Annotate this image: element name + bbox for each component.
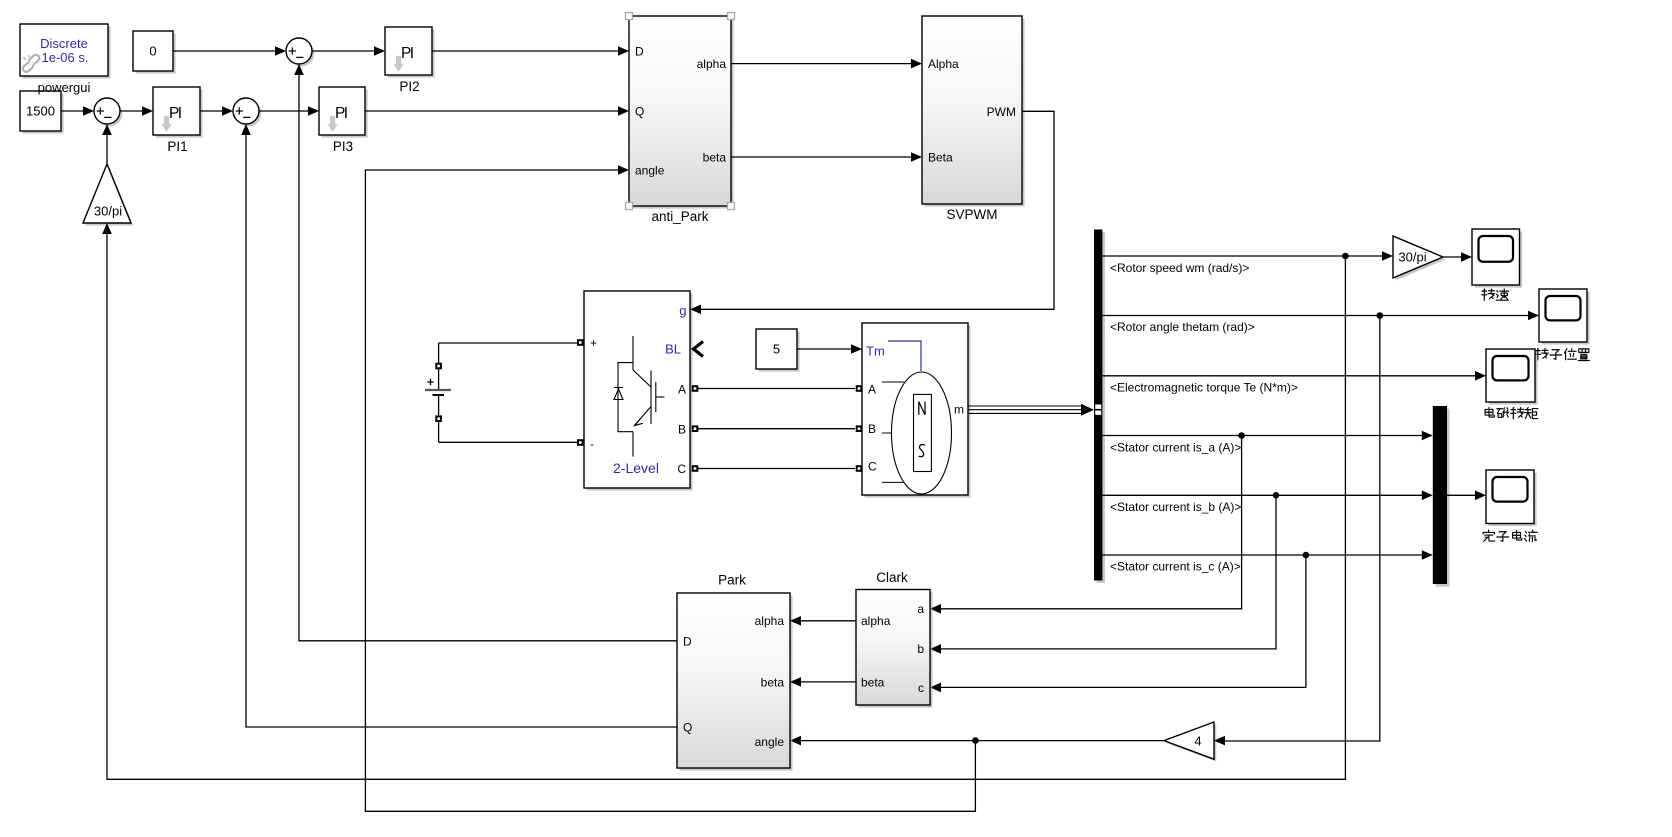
svg-text:<Stator current is_a (A)>: <Stator current is_a (A)> xyxy=(1110,441,1241,455)
svg-text:30/pi: 30/pi xyxy=(94,204,122,219)
PMSM magnet S glyph xyxy=(919,445,925,457)
svg-text:-: - xyxy=(590,437,594,451)
wire thetam to gain G3 xyxy=(1216,316,1380,742)
wire is_a to Clark a xyxy=(932,436,1242,609)
wire 5 to PMSM Tm xyxy=(797,348,860,350)
label 转速 xyxy=(1482,289,1509,300)
block Clark xyxy=(856,590,933,708)
svg-text:Clark: Clark xyxy=(876,570,908,585)
svg-text:beta: beta xyxy=(861,675,885,689)
wire bus Te to scope torque xyxy=(1102,375,1484,377)
sum junction S3 xyxy=(286,38,314,67)
svg-text:<Stator current is_c (A)>: <Stator current is_c (A)> xyxy=(1110,560,1241,574)
wire bus is_b to mux xyxy=(1102,494,1430,496)
wire 0 to S3 xyxy=(173,50,284,52)
block Park xyxy=(677,593,793,771)
junction is_c xyxy=(1303,552,1310,559)
block PI1 gray arrow icon xyxy=(161,116,171,132)
svg-text:g: g xyxy=(679,303,686,318)
junction is_a xyxy=(1238,432,1245,439)
wire bus is_c to mux xyxy=(1102,554,1430,556)
2-Level IGBT diode icon xyxy=(614,336,665,457)
svg-text:anti_Park: anti_Park xyxy=(651,209,708,224)
block SVPWM xyxy=(922,16,1025,207)
svg-text:beta: beta xyxy=(761,675,785,689)
svg-text:a: a xyxy=(917,602,924,616)
constant 0 xyxy=(133,31,176,74)
svg-text:BL: BL xyxy=(665,342,681,357)
block PI2 xyxy=(385,27,435,78)
wire angle feedback to anti_Park angle xyxy=(365,170,975,811)
svg-text:D: D xyxy=(683,634,692,648)
svg-text:5: 5 xyxy=(773,342,780,357)
scope zhuansu (speed) xyxy=(1472,229,1522,288)
svg-text:m: m xyxy=(954,403,964,417)
sum junction S2 xyxy=(233,98,261,127)
junction thetam feedback xyxy=(1377,312,1384,319)
wire battery- to 2-Level - xyxy=(439,441,578,443)
svg-text:4: 4 xyxy=(1194,734,1201,749)
svg-text:A: A xyxy=(868,382,876,396)
wire is_b to Clark b xyxy=(932,495,1276,649)
label 定子电流 xyxy=(1483,530,1537,542)
label 转子位置 xyxy=(1535,349,1589,361)
gain G3 value 4 left xyxy=(1164,722,1216,762)
PMSM stator stubs xyxy=(882,382,904,482)
svg-text:angle: angle xyxy=(635,164,665,178)
block PI3 gray arrow icon xyxy=(327,116,337,132)
wire Clark beta to Park beta xyxy=(792,681,856,683)
svg-text:alpha: alpha xyxy=(755,614,785,628)
svg-text:B: B xyxy=(868,422,876,436)
svg-text:<Rotor angle thetam (rad)>: <Rotor angle thetam (rad)> xyxy=(1110,320,1255,334)
wire Park D feedback to S3 xyxy=(299,66,677,641)
scope rotor position xyxy=(1539,289,1590,345)
wire PI1 to S2 xyxy=(200,110,231,112)
block powergui xyxy=(20,24,111,79)
wire bus wm to gain G2 xyxy=(1102,255,1391,257)
svg-text:2-Level: 2-Level xyxy=(613,460,659,476)
wire S1 to PI1 xyxy=(120,110,151,112)
svg-text:c: c xyxy=(918,681,924,695)
wire 1500 to S1 xyxy=(61,110,92,112)
svg-text:Q: Q xyxy=(683,721,692,735)
wire G1 to S1 ... vertical xyxy=(106,126,108,164)
wire G3 to Park angle xyxy=(792,740,1164,742)
wire battery+ to 2-Level + xyxy=(439,342,578,344)
bus selector input indicator xyxy=(1095,405,1101,409)
battery + sign xyxy=(427,379,433,385)
svg-text:<Stator current is_b (A)>: <Stator current is_b (A)> xyxy=(1110,500,1241,514)
bus selector bar xyxy=(1094,230,1105,584)
svg-text:Alpha: Alpha xyxy=(928,57,959,71)
2-Level electrical port squares xyxy=(577,339,584,346)
svg-text:PI: PI xyxy=(335,105,348,122)
svg-text:1e-06 s.: 1e-06 s. xyxy=(42,50,89,65)
block PI1 xyxy=(153,87,203,138)
junction angle feedback xyxy=(972,737,979,744)
PMSM electrical port squares xyxy=(856,385,863,392)
bus wire PMSM m to bus selector (triple line) xyxy=(968,406,1082,413)
wire wm feedback to gain G1 xyxy=(107,225,1345,779)
wire PI2 to anti_Park D xyxy=(432,50,627,52)
wire Clark alpha to Park alpha xyxy=(792,620,856,622)
block PI3 xyxy=(319,87,368,138)
wire 2-Level B to PMSM B xyxy=(698,428,856,430)
svg-text:alpha: alpha xyxy=(697,57,727,71)
PMSM Tm blue line xyxy=(888,341,921,371)
block anti_Park xyxy=(629,16,734,209)
wire is_c to Clark c xyxy=(932,555,1306,687)
scope torque xyxy=(1486,349,1538,405)
2-Level BL unconnected chevron xyxy=(694,342,704,357)
battery long plate xyxy=(425,389,451,391)
gain G2 30/pi right xyxy=(1393,236,1445,281)
wire anti_Park beta to SVPWM Beta xyxy=(731,156,920,158)
junction wm feedback xyxy=(1342,253,1349,260)
svg-text:PI: PI xyxy=(169,105,182,122)
mux bar xyxy=(1433,406,1450,587)
wire mux to scope stator current xyxy=(1447,494,1484,496)
svg-text:A: A xyxy=(678,382,686,396)
svg-text:30/pi: 30/pi xyxy=(1398,250,1426,265)
PMSM magnet rect xyxy=(914,394,932,471)
battery terminal port squares xyxy=(435,363,442,370)
svg-text:B: B xyxy=(678,422,686,436)
svg-text:C: C xyxy=(868,460,877,474)
wire SVPWM PWM to 2-Level g xyxy=(692,111,1054,309)
wire 2-Level C to PMSM C xyxy=(698,468,856,470)
wire S3 to PI2 xyxy=(312,50,383,52)
wire Park Q feedback to S2 xyxy=(246,126,677,727)
svg-text:Beta: Beta xyxy=(928,151,953,165)
svg-text:alpha: alpha xyxy=(861,614,891,628)
svg-text:PI2: PI2 xyxy=(399,79,419,94)
svg-text:SVPWM: SVPWM xyxy=(946,207,997,222)
battery short plate xyxy=(433,394,445,396)
svg-text:PI3: PI3 xyxy=(333,139,353,154)
anti_Park selection handles xyxy=(626,13,633,20)
block 2-Level converter xyxy=(584,291,693,491)
svg-text:1500: 1500 xyxy=(26,104,55,119)
svg-text:beta: beta xyxy=(703,151,727,165)
svg-text:PI1: PI1 xyxy=(167,139,187,154)
svg-text:angle: angle xyxy=(755,735,785,749)
wire anti_Park alpha to SVPWM Alpha xyxy=(731,63,920,65)
svg-text:b: b xyxy=(917,642,924,656)
DC source battery wires xyxy=(438,343,440,390)
svg-text:0: 0 xyxy=(149,44,156,59)
wire 2-Level A to PMSM A xyxy=(698,388,856,390)
svg-text:Q: Q xyxy=(635,105,644,119)
block PMSM motor xyxy=(862,323,971,498)
svg-text:Tm: Tm xyxy=(866,344,885,359)
svg-text:<Rotor speed wm (rad/s)>: <Rotor speed wm (rad/s)> xyxy=(1110,261,1249,275)
svg-text:D: D xyxy=(635,45,644,59)
block PI2 gray arrow icon xyxy=(393,56,403,72)
PMSM rotor ellipse xyxy=(892,372,952,494)
svg-text:Discrete: Discrete xyxy=(40,36,88,51)
svg-text:powergui: powergui xyxy=(38,80,91,95)
wire bus is_a to mux xyxy=(1102,435,1430,437)
wire bus thetam to scope rotor position xyxy=(1102,315,1537,317)
junction is_b xyxy=(1273,492,1280,499)
svg-text:Park: Park xyxy=(718,573,746,588)
wire G2 to scope speed xyxy=(1443,256,1470,258)
constant 5 xyxy=(756,329,800,372)
svg-text:PWM: PWM xyxy=(987,105,1016,119)
wire PI3 to anti_Park Q xyxy=(365,110,627,112)
gain G1 30/pi up xyxy=(83,164,133,226)
scope stator current xyxy=(1486,470,1537,526)
label 电磁转矩 xyxy=(1485,407,1538,418)
svg-text:<Electromagnetic torque Te (N*: <Electromagnetic torque Te (N*m)> xyxy=(1110,381,1298,395)
svg-text:+: + xyxy=(590,336,597,350)
sum junction S1 xyxy=(94,98,122,127)
svg-text:C: C xyxy=(677,462,686,476)
wire S2 to PI3 xyxy=(259,110,317,112)
powergui broken-link icon xyxy=(22,53,41,73)
constant 1500 xyxy=(20,91,64,134)
PMSM magnet N glyph xyxy=(919,402,925,415)
svg-text:PI: PI xyxy=(401,45,414,62)
